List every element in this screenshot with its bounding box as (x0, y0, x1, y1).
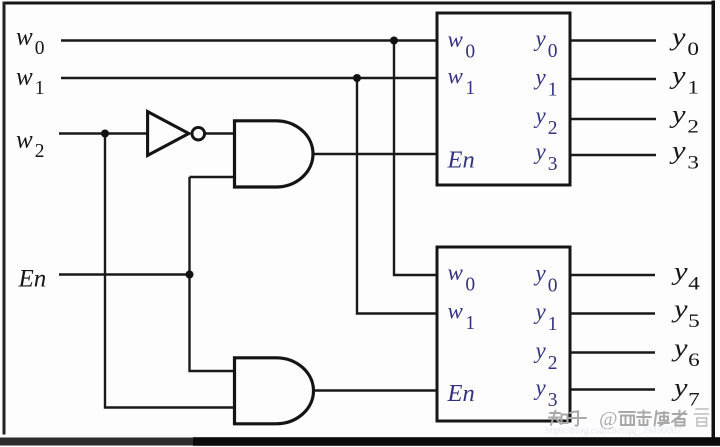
wire decoder U1 output y3 (572, 154, 657, 156)
svg-text:En: En (447, 147, 475, 174)
junction dot on En (186, 271, 194, 279)
wire w2 vertical branch down to AND2 lower input (105, 134, 233, 408)
wire decoder U2 output y5 (572, 312, 656, 314)
junction dot on w1 (353, 74, 361, 82)
wire decoder U1 output y1 (572, 78, 657, 80)
watermark text 知乎 (549, 411, 586, 426)
wire En vertical branch down to AND2 upper input (190, 177, 234, 371)
wire AND2 output to decoder U2 En (313, 389, 436, 391)
watermark bar left segment (0, 438, 193, 446)
wire AND1 output to decoder U1 En (313, 153, 436, 155)
AND gate G1 (235, 121, 314, 187)
svg-text:En: En (18, 266, 47, 293)
watermark bar right segment (193, 437, 720, 446)
frame top border (3, 2, 716, 5)
wire w2 to inverter (59, 132, 147, 134)
svg-text:https:/blog.csdn.net/qq_394900: https:/blog.csdn.net/qq_39490007 (545, 426, 683, 437)
wire decoder U2 output y6 (572, 351, 656, 353)
wire decoder U2 output y4 (572, 274, 656, 276)
wire w1 branch down to decoder U2 w1 (357, 78, 436, 314)
wire w0 horizontal (61, 39, 436, 41)
wire inverter output to AND1 (205, 132, 233, 134)
wire En horizontal (59, 273, 190, 275)
wire decoder U2 output y7 (572, 388, 656, 390)
wire decoder U1 output y0 (572, 39, 657, 41)
frame left border (3, 2, 6, 435)
frame right border (712, 1, 716, 438)
wire w1 horizontal (61, 77, 436, 79)
junction dot on w0 (390, 37, 398, 45)
junction dot on w2 (101, 130, 109, 138)
inverter (NOT gate) triangle (148, 112, 189, 156)
watermark text 西岳使者 (619, 411, 687, 426)
watermark faint trailing glyph (695, 409, 709, 426)
decoder U2 box (437, 247, 570, 421)
AND gate G2 (235, 358, 314, 424)
wire En branch to AND1 lower input (190, 176, 234, 178)
inverter bubble (192, 127, 205, 140)
svg-text:En: En (447, 380, 475, 407)
decoder U1 box (437, 13, 570, 185)
wire w0 branch down to decoder U2 w0 (394, 41, 436, 276)
wire decoder U1 output y2 (572, 118, 657, 120)
